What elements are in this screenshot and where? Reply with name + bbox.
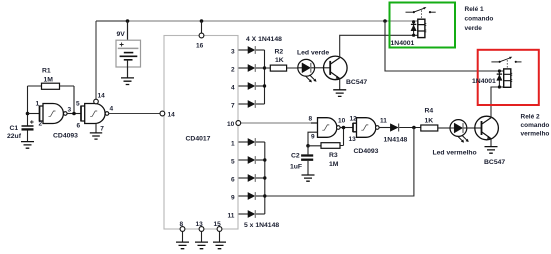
wire pin8 to ground [182,231,184,242]
svg-text:comando: comando [465,15,494,22]
relay 1 green highlight box [390,3,456,48]
svg-text:1M: 1M [44,77,54,84]
svg-text:1K: 1K [425,118,434,125]
capacitor C1 22uF [7,120,34,140]
svg-text:4: 4 [110,106,114,113]
node bus row4 [263,84,266,87]
svg-text:14: 14 [98,93,106,100]
ground C1 [21,142,34,149]
battery B1 9V [116,31,141,67]
svg-text:9: 9 [231,194,235,201]
nand gate U1C CD4093 pins 8,9,10 [309,115,346,140]
svg-text:15: 15 [214,221,222,228]
wire bottom diode bus [264,142,266,214]
svg-text:1: 1 [231,140,235,147]
resistor R4 1K [421,108,450,132]
node C1 / gate input junction [26,112,30,116]
relay 2 red highlight box [478,50,539,105]
svg-text:7: 7 [100,125,104,132]
svg-text:5: 5 [76,100,80,107]
svg-text:13: 13 [349,136,357,143]
wire junction down and to bottom bus [265,128,414,197]
diode D8 1N4148 row pin1 [239,138,265,146]
ground battery [121,78,134,85]
LED D13 Led vermelho [433,120,477,157]
wire rail down to relay2 [385,21,504,71]
resistor R2 1K [265,48,298,71]
wire gate3 out to gate4 in [340,127,353,129]
node pin 8 terminal [180,227,185,232]
wire pin13 to ground [201,231,203,242]
svg-text:1: 1 [36,100,40,107]
wire Q1 emitter to ground [339,79,341,90]
wire gate2 output to CD4017 pin14 [109,113,160,115]
svg-text:R1: R1 [42,68,51,75]
svg-text:BC547: BC547 [484,159,505,166]
svg-text:R4: R4 [425,108,434,115]
svg-text:9V: 9V [117,31,126,38]
svg-text:CD4017: CD4017 [186,136,211,143]
wire top rail gray [128,20,419,22]
wire C1 to ground [27,131,29,142]
svg-text:1K: 1K [275,57,284,64]
svg-text:12: 12 [350,116,358,123]
ground C2 [302,175,315,181]
svg-text:9: 9 [311,134,315,141]
relay K1 switch [406,7,436,19]
svg-text:R2: R2 [275,48,284,55]
svg-text:vermelho: vermelho [521,131,550,138]
wire rail to pin16 [201,21,203,33]
diode D6 1N4001 relay1 [391,20,417,47]
nand gate U1D CD4093 pins 12,13,11 [349,116,388,144]
nand gate U1A CD4093 pins 1,2,3 [36,100,72,127]
node pin 13 terminal [199,227,204,232]
svg-text:22uf: 22uf [7,133,22,140]
svg-text:1M: 1M [329,161,339,168]
svg-text:5: 5 [231,158,235,165]
wire Q1 collector up to relay1 [340,35,418,57]
svg-text:11: 11 [380,118,387,125]
svg-text:1N4001: 1N4001 [391,40,415,47]
diode D12 1N4148 row pin11 [239,210,265,218]
ground Q1 [333,90,346,97]
node pin 16 terminal [199,33,204,38]
wire top rail left segment [96,20,128,22]
ground pin8 [176,242,189,249]
svg-text:5 x 1N4148: 5 x 1N4148 [244,222,279,229]
LED D5 Led verde [297,50,329,83]
ground Q2 [485,147,498,154]
svg-text:C2: C2 [291,152,300,159]
svg-text:R3: R3 [329,152,338,159]
transistor Q1 BC547 [324,56,368,86]
svg-text:6: 6 [231,176,235,183]
node bus row9 [263,194,266,197]
wire C2 to ground [307,161,309,175]
svg-text:3: 3 [231,48,235,55]
wire battery to ground [127,60,129,78]
wire R3 to gate3 output [343,128,345,146]
node pin 15 terminal [217,227,222,232]
transistor Q2 BC547 [475,116,506,166]
diode D4 1N4148 row pin7 [239,100,265,108]
ground gate2 pin7 [90,133,102,139]
svg-text:1uF: 1uF [290,164,302,171]
node pin 14 terminal [160,111,165,116]
wire pin10 to gate3 pin8 [240,122,311,124]
IC U2 CD4017 box [164,36,238,230]
svg-text:13: 13 [196,221,204,228]
svg-text:4 X 1N4148: 4 X 1N4148 [246,36,282,43]
diode D1 1N4148 row pin3 [239,46,265,54]
svg-text:11: 11 [228,212,235,219]
svg-text:6: 6 [77,122,81,129]
svg-text:comando: comando [521,122,550,129]
svg-text:verde: verde [465,25,483,32]
svg-text:10: 10 [227,121,235,128]
svg-text:1N4148: 1N4148 [384,137,408,144]
node R3 C2 junction [306,144,310,148]
wire left node vertical [27,86,29,126]
svg-text:3: 3 [68,107,72,114]
wire left vertical to gate VDD [95,21,97,99]
svg-text:Relé 1: Relé 1 [465,6,485,13]
node pin16 rail junction [200,19,204,23]
diode D9 1N4148 row pin5 [239,156,265,164]
relay K2 switch [491,57,521,69]
wire gate3 pin9 to RC node [308,132,318,146]
ground pin15 [213,242,226,249]
capacitor C2 1uF [290,146,313,171]
diode D11 1N4148 row pin9 [239,192,265,200]
diode D14 1N4001 relay2 [472,69,502,88]
svg-text:8: 8 [309,115,313,122]
svg-text:Led verde: Led verde [297,50,329,57]
node R4 junction [412,126,416,130]
node bus row5 [263,158,266,161]
ground pin13 [195,242,208,249]
svg-text:Relé 2: Relé 2 [521,113,541,120]
node rail junction to relay2 feed [383,19,387,23]
wire LED to Q2 base [467,127,482,129]
resistor R1 1M [28,68,75,90]
svg-text:1N4001: 1N4001 [472,78,496,85]
wire gate1 out to gate2 in [67,113,81,115]
resistor R3 1M [308,143,344,168]
wire LED to Q1 base [315,67,331,69]
nand gate U1B CD4093 pins 5,6,4 [76,93,114,133]
diode D2 1N4148 row pin2 [239,64,265,72]
svg-text:7: 7 [231,102,235,109]
node bus row2 [263,66,266,69]
svg-text:2: 2 [231,66,235,73]
wire Q2 collector up to relay2 [491,87,504,118]
svg-text:CD4093: CD4093 [354,148,379,155]
svg-text:BC547: BC547 [346,79,367,86]
svg-text:C1: C1 [10,125,19,132]
wire gate2 pin7 to ground [95,124,97,133]
svg-text:CD4093: CD4093 [53,132,78,139]
svg-text:14: 14 [168,112,176,119]
wire R1 right to gate1 output node [73,86,75,114]
wire node to gate1 inputs [28,113,40,115]
node pin 10 terminal [236,121,241,126]
relay K2 coil [504,69,513,87]
diode D10 1N4148 row pin6 [239,174,265,182]
node battery + rail junction [126,19,130,23]
diode D7 1N4148 output [379,124,421,144]
svg-text:8: 8 [180,221,184,228]
relay K1 coil [418,19,427,37]
svg-text:4: 4 [231,84,235,91]
svg-text:Led vermelho: Led vermelho [433,150,477,157]
wire pin15 to ground [219,231,221,242]
svg-text:2: 2 [39,120,43,127]
node bus row6 [263,176,266,179]
node gate3 output junction [342,126,346,130]
wire pin8 stub [311,122,318,124]
wire battery drop [127,21,129,48]
wire top diode bus [264,50,266,104]
diode D3 1N4148 row pin4 [239,82,265,90]
node feedback junction [72,112,76,116]
wire Q2 emitter to ground [490,139,492,147]
svg-text:10: 10 [338,118,346,125]
svg-text:16: 16 [196,43,204,50]
